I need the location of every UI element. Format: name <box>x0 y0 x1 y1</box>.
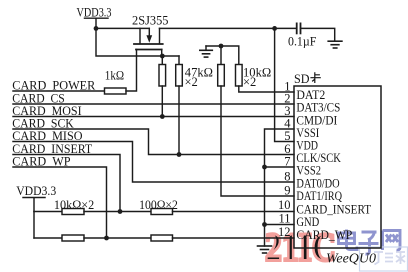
wire row1 left <box>34 211 62 213</box>
wire CARD_MISO row jog to pin8 <box>13 142 294 183</box>
node VDD3.3 junction <box>94 26 99 31</box>
wire 47k#2 bottom to CLK line <box>178 86 180 155</box>
svg-text:8: 8 <box>284 170 290 184</box>
svg-text:5: 5 <box>284 129 290 143</box>
svg-text:CARD_WP: CARD_WP <box>12 155 70 169</box>
power symbol VDD3.3 (top) <box>85 18 109 28</box>
node dot 10k#1 top <box>219 44 224 49</box>
svg-text:GND: GND <box>296 215 319 229</box>
node dot WP tap <box>104 236 109 241</box>
ground (bottom, SD card) <box>258 246 272 253</box>
wire 47k tops <box>162 56 179 65</box>
svg-text:SD: SD <box>294 72 310 86</box>
svg-text:7: 7 <box>284 155 290 169</box>
svg-text:10kΩ×2: 10kΩ×2 <box>54 198 94 212</box>
svg-text:2SJ355: 2SJ355 <box>132 13 169 27</box>
node cap junction <box>272 26 277 31</box>
resistor R3 47k #2 <box>176 65 183 87</box>
wire cap node down to VDD pin5 <box>275 28 294 141</box>
node dot 47k#1 on MOSI <box>160 114 165 119</box>
wire CARD_SCK row jog to pin6 <box>13 129 294 155</box>
svg-text:12: 12 <box>278 225 291 239</box>
capacitor C1 0.1uF <box>297 23 301 33</box>
node dot pin7 on rail <box>262 165 267 170</box>
resistor R7 10k row2 <box>62 235 84 241</box>
resistor R2 47k #1 <box>159 65 166 87</box>
ground (top right, for cap) <box>328 41 342 48</box>
resistor R9 100R row2 <box>151 235 173 241</box>
wire ground net to 10k tops <box>206 46 239 65</box>
wire cap right to ground <box>301 28 335 41</box>
watermark blue CJK dian-zi-wang <box>339 230 401 255</box>
power symbol VDD3.3 (bottom) <box>23 198 45 212</box>
wire source from VDD to transistor <box>96 27 149 29</box>
wire 1k to gate <box>126 50 137 92</box>
node dot 47k#2 on CLK <box>177 152 182 157</box>
resistor R1 1k <box>105 88 127 94</box>
svg-text:VDD3.3: VDD3.3 <box>77 5 112 19</box>
svg-text:VDD3.3: VDD3.3 <box>16 184 56 198</box>
svg-text:WeeQU0: WeeQU0 <box>326 252 376 267</box>
wire 10k#1 bottom to pin9 <box>221 86 294 196</box>
wire pin11 GND stub <box>265 224 295 226</box>
watermark faint line 2 <box>326 247 408 271</box>
svg-text:0.1µF: 0.1µF <box>288 34 316 48</box>
wire gate bar right end down to net <box>161 50 163 57</box>
connector J1 SD card box <box>294 86 381 248</box>
wire row2 mid <box>84 237 151 239</box>
svg-text:11: 11 <box>278 212 290 226</box>
wire row1 mid <box>84 211 151 213</box>
node dot pin11 on rail <box>262 222 267 227</box>
wire CARD_MOSI row to pin3 <box>13 116 294 118</box>
wire pin7 VSS2 stub <box>265 166 295 168</box>
svg-text:9: 9 <box>284 184 290 198</box>
resistor R8 100R row1 <box>151 209 173 215</box>
transistor Q1 2SJ355 <box>134 28 163 49</box>
resistor R6 10k row1 <box>62 209 84 215</box>
wire CARD_CS row to pin2 <box>13 103 294 105</box>
svg-text:×2: ×2 <box>185 75 198 89</box>
svg-text:CARD_POWER: CARD_POWER <box>12 79 96 93</box>
wire CARD_INSERT row drop <box>13 155 120 212</box>
node dot INSERT tap <box>118 209 123 214</box>
wire pin4 VSS1 to ground rail <box>265 129 295 246</box>
wire 10k#2 bottom to pin1 <box>239 86 294 92</box>
svg-text:CARD_WP: CARD_WP <box>296 228 352 242</box>
wire row2 left <box>34 237 62 239</box>
resistor R4 10k #1 <box>218 65 225 87</box>
glyph for SD-ka (card) <box>310 72 320 83</box>
resistor R5 10k #2 <box>236 65 243 87</box>
svg-text:VSS2: VSS2 <box>296 163 321 177</box>
wire row1 to pin10 <box>173 211 295 213</box>
wire drain to cap node <box>160 27 297 29</box>
wire VDD down and right (net line) <box>96 28 179 56</box>
svg-text:×2: ×2 <box>243 75 256 89</box>
svg-text:CARD_MISO: CARD_MISO <box>12 129 82 143</box>
svg-text:10: 10 <box>278 198 291 212</box>
wire 47k#1 bottom to CARD_MOSI <box>161 86 163 117</box>
ground (top, for 10k pair) <box>200 46 213 57</box>
svg-text:1kΩ: 1kΩ <box>105 69 124 83</box>
wire VDD rail down <box>33 212 35 239</box>
wire CARD_POWER row <box>13 90 105 92</box>
wire row2 to pin12 <box>173 237 295 239</box>
node net junction dot <box>160 54 165 59</box>
wire CARD_WP row drop <box>13 167 107 238</box>
svg-text:DAT1/IRQ: DAT1/IRQ <box>296 189 342 203</box>
svg-text:100Ω×2: 100Ω×2 <box>139 198 178 212</box>
